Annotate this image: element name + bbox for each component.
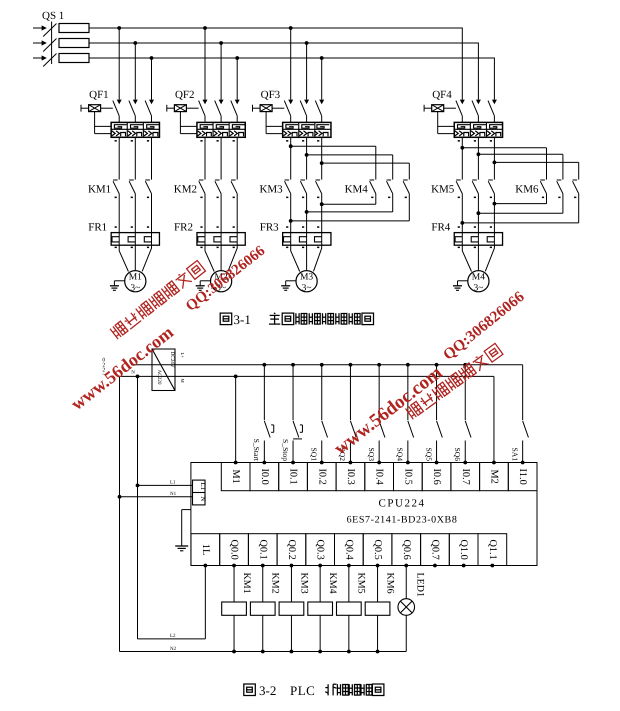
- PLC output terminal row: [191, 534, 507, 568]
- svg-text:S_Start: S_Start: [252, 439, 261, 462]
- wire L rail to 1L: [138, 376, 206, 639]
- wire M1 common drop: [235, 376, 237, 462]
- fuse FU1: [59, 24, 89, 33]
- svg-text:3-1: 3-1: [234, 312, 251, 327]
- svg-text:Q0.7: Q0.7: [429, 539, 440, 559]
- svg-text:KM1: KM1: [88, 184, 111, 196]
- switch SQ6: [453, 363, 471, 463]
- svg-text:Q0.4: Q0.4: [343, 539, 354, 559]
- wire N rail / bottom bus: [120, 376, 407, 651]
- svg-text:Q0.5: Q0.5: [372, 539, 383, 559]
- ground of motor M3: [281, 281, 296, 291]
- contactor coil KM1: [222, 566, 252, 654]
- svg-text:M: M: [180, 379, 185, 383]
- svg-text:I0.0: I0.0: [259, 468, 270, 484]
- svg-text:KM5: KM5: [356, 573, 367, 594]
- svg-text:M1: M1: [129, 273, 142, 283]
- svg-text:L1: L1: [199, 482, 207, 490]
- svg-text:Q0.0: Q0.0: [229, 539, 240, 559]
- svg-text:1L: 1L: [200, 544, 211, 555]
- svg-text:SQ5: SQ5: [424, 447, 433, 461]
- svg-text:KM4: KM4: [327, 573, 338, 594]
- motor M4: [462, 245, 494, 293]
- switch S_Start: [252, 363, 274, 463]
- contactor coil KM3: [279, 566, 309, 654]
- svg-text:KM1: KM1: [241, 573, 252, 594]
- svg-text:QF2: QF2: [175, 89, 195, 101]
- watermark biye sheji lunwen wang (middle): [405, 343, 503, 419]
- watermark www.56doc.com (middle): [330, 362, 446, 459]
- svg-text:N1: N1: [170, 491, 177, 497]
- svg-text:I0.5: I0.5: [402, 468, 413, 484]
- svg-text:M3: M3: [300, 273, 313, 283]
- svg-text:M4: M4: [472, 273, 485, 283]
- svg-text:PLC: PLC: [290, 683, 315, 698]
- svg-text:KM2: KM2: [270, 573, 281, 594]
- switch SQ1: [309, 363, 327, 463]
- svg-text:KM4: KM4: [345, 184, 369, 196]
- contactor coil KM2: [250, 566, 280, 654]
- svg-text:KM6: KM6: [515, 184, 539, 196]
- svg-text:QF1: QF1: [89, 89, 109, 101]
- svg-text:3-2: 3-2: [259, 683, 276, 698]
- wire L1 into PLC: [136, 480, 193, 488]
- wire AC/M second rail: [120, 370, 494, 379]
- wire N into PLC: [118, 491, 193, 499]
- ground of motor M2: [196, 281, 211, 291]
- wire DC 24V top rail: [131, 364, 523, 366]
- thermal relay FR1: [88, 222, 159, 249]
- svg-text:AC220: AC220: [156, 370, 162, 385]
- svg-text:Q1.1: Q1.1: [487, 539, 498, 559]
- svg-text:FR1: FR1: [88, 222, 107, 234]
- power supply U2 AC220/DC24V: [152, 349, 185, 391]
- svg-text:Q0.3: Q0.3: [315, 539, 326, 559]
- svg-text:I0.6: I0.6: [431, 468, 442, 484]
- contactor coil KM5: [337, 566, 367, 654]
- svg-text:DC24V: DC24V: [169, 352, 175, 368]
- motor M1: [119, 245, 151, 293]
- svg-text:I0.7: I0.7: [460, 468, 471, 484]
- contactor KM6: [462, 148, 578, 223]
- switch SQ3: [367, 363, 385, 463]
- svg-text:SA1: SA1: [510, 447, 519, 461]
- caption figure 3-2: [244, 683, 384, 698]
- svg-text:I0.4: I0.4: [374, 468, 385, 484]
- svg-text:KM2: KM2: [174, 184, 197, 196]
- contactor KM2: [174, 137, 237, 232]
- contactor KM5: [431, 137, 496, 232]
- watermark www.56doc.com (upper-left): [67, 322, 177, 414]
- svg-text:FR4: FR4: [431, 222, 450, 234]
- terminal block L1/N: [193, 480, 208, 505]
- wire phase L2 rail: [89, 43, 478, 100]
- svg-text:M2: M2: [488, 469, 499, 483]
- contactor coil KM4: [308, 566, 338, 654]
- svg-text:KM3: KM3: [259, 184, 283, 196]
- svg-text:3~: 3~: [130, 284, 140, 294]
- wire M2 common drop: [493, 376, 495, 462]
- svg-text:I0.3: I0.3: [345, 468, 356, 484]
- indicator lamp LED1: [398, 566, 425, 652]
- watermark QQ:306826066 (upper-left): [183, 243, 269, 315]
- svg-text:QS 1: QS 1: [42, 10, 64, 22]
- svg-text:I1.0: I1.0: [517, 468, 528, 484]
- motor M3: [291, 245, 322, 293]
- fuse FU3: [59, 54, 89, 63]
- switch SQ4: [396, 363, 414, 463]
- switch SA1: [510, 365, 528, 463]
- svg-text:N: N: [199, 496, 207, 501]
- svg-text:SQ6: SQ6: [453, 447, 462, 461]
- PLC protective earth ground: [175, 510, 191, 551]
- svg-text:Q0.6: Q0.6: [401, 539, 412, 559]
- svg-text:FR2: FR2: [174, 222, 193, 234]
- svg-text:Q0.1: Q0.1: [257, 539, 268, 559]
- svg-text:KM3: KM3: [298, 573, 309, 594]
- watermark QQ:306826066 (middle): [440, 288, 528, 364]
- svg-text:S_Stop: S_Stop: [281, 439, 290, 461]
- svg-text:SQ1: SQ1: [309, 447, 318, 461]
- node ~220 supply label: [102, 358, 105, 379]
- thermal relay FR3: [260, 222, 331, 249]
- wire phase L1 rail: [89, 28, 462, 100]
- motor M2: [205, 245, 237, 293]
- caption figure 3-1: [220, 312, 373, 327]
- svg-text:QF3: QF3: [261, 89, 281, 101]
- circuit breaker QF2: [167, 26, 245, 142]
- svg-text:SQ4: SQ4: [396, 447, 405, 461]
- switch S_Stop: [281, 363, 303, 463]
- svg-text:L1: L1: [170, 480, 176, 486]
- ground of motor M1: [110, 281, 125, 291]
- PLC input terminal row: [221, 461, 537, 491]
- svg-text:Q0.2: Q0.2: [286, 539, 297, 559]
- wire phase L3 rail: [89, 58, 494, 100]
- ground of motor M4: [453, 281, 468, 291]
- PLC CPU224 body: [191, 463, 537, 566]
- svg-text:QF4: QF4: [432, 89, 452, 101]
- switch SQ5: [424, 363, 442, 463]
- svg-text:KM5: KM5: [431, 184, 455, 196]
- circuit breaker QF1: [81, 26, 159, 142]
- svg-text:SQ3: SQ3: [367, 447, 376, 461]
- svg-text:KM6: KM6: [384, 573, 395, 594]
- circuit breaker QF4: [424, 89, 502, 142]
- thermal relay FR2: [174, 222, 245, 249]
- fuse FU2: [59, 39, 89, 48]
- svg-text:6ES7-2141-BD23-0XB8: 6ES7-2141-BD23-0XB8: [347, 515, 458, 526]
- svg-text:L2: L2: [170, 633, 176, 639]
- disconnect switch QS1: [33, 10, 64, 67]
- svg-text:3~: 3~: [473, 284, 483, 294]
- watermark biye sheji lunwen wang (upper-left): [110, 260, 206, 339]
- svg-text:I0.1: I0.1: [288, 468, 299, 484]
- svg-text:FR3: FR3: [260, 222, 279, 234]
- svg-text:Q1.0: Q1.0: [458, 539, 469, 559]
- svg-text:I0.2: I0.2: [316, 468, 327, 484]
- circuit breaker QF3: [253, 26, 331, 142]
- contactor coil KM6: [365, 566, 395, 654]
- switch SQ2: [338, 363, 356, 463]
- contactor KM3: [259, 137, 323, 232]
- contactor KM4: [291, 146, 410, 221]
- svg-text:N2: N2: [170, 646, 177, 652]
- contactor KM1: [88, 137, 152, 232]
- thermal relay FR4: [431, 222, 502, 249]
- svg-text:CPU224: CPU224: [379, 498, 426, 510]
- svg-text:LED1: LED1: [414, 573, 425, 597]
- svg-text:M1: M1: [230, 469, 241, 483]
- svg-text:3~: 3~: [302, 284, 312, 294]
- svg-text:L+: L+: [180, 353, 185, 359]
